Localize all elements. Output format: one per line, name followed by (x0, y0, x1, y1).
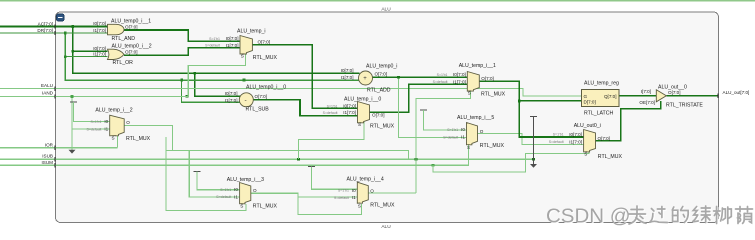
top page divider line (0, 0, 755, 2)
wire MUX ALU_temp_i__1 output to latch D and MUX ALU_out0_i I0 (479, 81, 583, 137)
svg-text:I0[7:0]: I0[7:0] (225, 91, 238, 96)
svg-text:O[7:0]: O[7:0] (375, 72, 388, 77)
svg-text:D[7:0]: D[7:0] (584, 99, 596, 104)
svg-text:IOR: IOR (45, 142, 54, 147)
port tick ALU_out (717, 94, 718, 98)
svg-text:O[7:0]: O[7:0] (372, 112, 385, 117)
svg-text:I1[7:0]: I1[7:0] (569, 139, 582, 144)
constant tie T1 (70, 101, 77, 103)
svg-text:S=default: S=default (334, 196, 349, 200)
junction ISUM branch to ALU_out0_i select (432, 164, 435, 167)
junction ISUB at x298 (297, 158, 300, 161)
svg-text:I[7:0]: I[7:0] (641, 89, 651, 94)
wire net ISUB (long horizontal) (0, 158, 534, 160)
port tick EALU (54, 86, 55, 90)
wire net IAND to MUX ALU_temp_i select and MUX ALU_temp_i__2 I1 (0, 54, 246, 150)
svg-text:S=1'b1: S=1'b1 (220, 188, 231, 192)
mux ALU_temp_i__2 (110, 115, 125, 136)
svg-text:S=1'b1: S=1'b1 (209, 37, 220, 41)
wire MUX ALU_temp_i__0 output to MUX ALU_temp_i__1 I1 (370, 84, 468, 112)
wire net ISUM to MUX ALU_temp_i__5 select (0, 145, 469, 165)
wire constant T2 to MUX ALU_temp_i__3 I0 (197, 172, 240, 190)
svg-text:EALU: EALU (41, 83, 53, 88)
mux ALU_out0_i (584, 130, 596, 152)
port tick DR (54, 31, 55, 35)
svg-text:ISUM: ISUM (42, 160, 54, 165)
svg-text:O: O (370, 188, 374, 193)
svg-text:Q[7:0]: Q[7:0] (604, 94, 617, 99)
svg-text:I0[7:0]: I0[7:0] (93, 21, 106, 26)
junction DR at AND I1 (64, 32, 67, 35)
svg-text:I0[7:0]: I0[7:0] (343, 104, 356, 109)
ground arrow A1 (69, 150, 76, 154)
svg-text:ALU: ALU (381, 224, 391, 230)
svg-text:S=default: S=default (216, 195, 231, 199)
constant tie T3 (308, 165, 315, 167)
svg-text:ALU_out[7:0]: ALU_out[7:0] (723, 90, 750, 95)
svg-text:ALU_temp_i__1: ALU_temp_i__1 (459, 63, 496, 69)
wire net ISUB branch to MUX ALU_temp_i__1 select and MUX ALU_temp_i__4 output (368, 91, 470, 193)
svg-text:S=1'b1: S=1'b1 (437, 73, 448, 77)
svg-text:RTL_MUX: RTL_MUX (481, 91, 506, 97)
mux ALU_temp_i__1 (467, 72, 479, 92)
svg-text:RTL_MUX: RTL_MUX (253, 203, 278, 209)
junction AC at AND I0 (72, 25, 75, 28)
svg-text:AC[7:0]: AC[7:0] (38, 21, 53, 26)
wire ADD output to MUX ALU_temp_i__1 I0 (372, 76, 467, 78)
svg-text:S: S (240, 203, 243, 208)
junction ISUB at x416 (415, 158, 418, 161)
svg-text:I0: I0 (461, 127, 465, 132)
svg-text:ALU_temp_i__5: ALU_temp_i__5 (457, 115, 494, 121)
svg-text:S: S (112, 135, 115, 140)
mux ALU_temp_i__0 (358, 102, 370, 123)
svg-text:ALU_temp_i__2: ALU_temp_i__2 (95, 107, 132, 113)
svg-text:ALU_temp_i__4: ALU_temp_i__4 (347, 176, 384, 182)
svg-text:I1[7:0]: I1[7:0] (453, 79, 466, 84)
svg-text:I1: I1 (234, 194, 238, 199)
port tick IOR (54, 146, 55, 150)
OR gate ALU_temp0_i__2 (108, 49, 125, 59)
port tick AC (54, 24, 55, 28)
mux ALU_temp_i (240, 36, 252, 55)
ADD circle ALU_temp0_i (359, 71, 373, 85)
svg-text:S=default: S=default (323, 111, 338, 115)
wire continuation to ISUB net jog (189, 150, 408, 159)
wire branch ADD out to MUX ALU_temp_i__5 I1 (398, 77, 466, 137)
wire net EALU to latch G (0, 89, 582, 96)
svg-text:RTL_AND: RTL_AND (112, 36, 136, 42)
module ALU boundary box (56, 12, 719, 223)
junction DR at U3 select crossing (243, 79, 246, 82)
junction U6 out at latch D (518, 100, 521, 103)
mux ALU_temp_i__3 (240, 183, 251, 204)
junction AC to SUB I0 (194, 72, 197, 75)
wire latch Q to tristate input (619, 95, 656, 97)
svg-text:S=default: S=default (87, 127, 102, 131)
svg-text:S=default: S=default (549, 140, 564, 144)
svg-text:S=1'b1: S=1'b1 (447, 128, 458, 132)
svg-text:O[7:0]: O[7:0] (125, 49, 138, 54)
wire ISUM branch to MUX ALU_out0_i select (433, 152, 589, 172)
svg-text:O[7:0]: O[7:0] (481, 76, 494, 81)
mux ALU_temp_i__4 (357, 182, 368, 203)
svg-text:DR[7:0]: DR[7:0] (37, 28, 53, 33)
svg-text:I0: I0 (234, 187, 238, 192)
constant tie T4 (420, 109, 427, 111)
junction ISUB at x533 (532, 158, 535, 161)
svg-text:I0: I0 (104, 119, 108, 124)
svg-text:S: S (584, 151, 587, 156)
svg-text:S: S (467, 145, 470, 150)
wire MUX ALU_temp_i__5 output to MUX ALU_out0_i I1 (478, 134, 584, 145)
svg-text:RTL_MUX: RTL_MUX (598, 154, 623, 160)
svg-text:I1[7:0]: I1[7:0] (93, 28, 106, 33)
svg-text:O[7:0]: O[7:0] (125, 24, 138, 29)
svg-text:ALU_temp0_i__0: ALU_temp0_i__0 (246, 85, 286, 91)
svg-text:I1[7:0]: I1[7:0] (341, 75, 354, 80)
svg-text:ALU_temp0_i: ALU_temp0_i (366, 64, 397, 70)
svg-text:RTL_ADD: RTL_ADD (367, 88, 391, 94)
wire AND output to MUX ALU_temp_i I0 (124, 30, 240, 41)
svg-text:RTL_LATCH: RTL_LATCH (584, 111, 613, 117)
svg-text:S: S (241, 54, 244, 59)
svg-text:I0: I0 (352, 188, 356, 193)
AND gate ALU_temp0_i__1 (108, 24, 125, 35)
ground arrow A2 (530, 164, 537, 168)
svg-text:ALU_out0_i: ALU_out0_i (574, 123, 601, 129)
wire net DR (medium green) (0, 33, 360, 102)
svg-text:G: G (584, 94, 588, 99)
wire net AC (dark green) (0, 27, 360, 97)
svg-text:RTL_TRISTATE: RTL_TRISTATE (666, 102, 703, 108)
svg-text:RTL_MUX: RTL_MUX (253, 55, 278, 61)
module collapse icon (57, 14, 65, 21)
constant tie T5 (530, 117, 537, 165)
junction ADD out branch (397, 76, 400, 79)
svg-text:I0[7:0]: I0[7:0] (453, 72, 466, 77)
wire MUX ALU_temp_i__3 output to MUX ALU_temp_i__4 I1 and select (251, 193, 362, 214)
svg-text:RTL_SUB: RTL_SUB (246, 107, 270, 113)
svg-text:O[7:0]: O[7:0] (668, 90, 681, 95)
wire SUB output to MUX ALU_temp_i__0 I1 (253, 100, 357, 116)
svg-text:RTL_MUX: RTL_MUX (370, 202, 395, 208)
tristate buffer ALU_out__0 (656, 90, 666, 102)
svg-text:S: S (358, 122, 361, 127)
wire to MUX ALU_temp_i__3 I1 (166, 150, 240, 197)
svg-text:CSDN @: CSDN @ (546, 204, 631, 227)
svg-text:O: O (126, 120, 130, 125)
svg-text:I0[7:0]: I0[7:0] (93, 46, 106, 51)
svg-text:ALU_temp_i__3: ALU_temp_i__3 (227, 177, 264, 183)
junction on SUB I0 row (186, 95, 189, 98)
wire OR output to MUX ALU_temp_i I1 (124, 48, 240, 55)
SUB circle ALU_temp0_i__0 (239, 93, 253, 107)
svg-text:ALU_temp0_i__1: ALU_temp0_i__1 (111, 18, 151, 24)
svg-text:ISUB: ISUB (42, 153, 53, 158)
port tick ISUB (54, 157, 55, 161)
svg-text:IAND: IAND (42, 91, 54, 96)
constant tie T2 (193, 171, 200, 173)
svg-text:S=1'b1: S=1'b1 (327, 104, 338, 108)
junction DR at OR I1 (64, 55, 67, 58)
svg-text:S=1'b1: S=1'b1 (91, 120, 102, 124)
wire vertical to MUX ALU_temp_i__3 select (166, 137, 246, 210)
svg-text:I0[7:0]: I0[7:0] (226, 36, 239, 41)
wire constant T1 to MUX ALU_temp_i__2 I0 (73, 102, 109, 122)
svg-text:I0[7:0]: I0[7:0] (341, 68, 354, 73)
junction AC at OR I0 (72, 50, 75, 53)
svg-text:O: O (253, 188, 257, 193)
wire tristate output to port ALU_out (666, 95, 718, 97)
svg-text:O[7:0]: O[7:0] (258, 39, 271, 44)
svg-text:OE[7:0]: OE[7:0] (639, 100, 655, 105)
svg-text:ALU_temp_i__0: ALU_temp_i__0 (344, 97, 381, 103)
mux ALU_temp_i__5 (467, 123, 478, 145)
wire net IOR to MUX ALU_temp_i__2 select (0, 135, 118, 148)
svg-text:S=1'b1: S=1'b1 (553, 133, 564, 137)
junction DR to SUB I1 (180, 79, 183, 82)
svg-text:I1: I1 (461, 135, 465, 140)
wire constant T4 to MUX ALU_temp_i__5 I0 (423, 110, 466, 130)
wire constant T3 to MUX ALU_temp_i__4 I0 (311, 166, 357, 189)
junction IAND branch (71, 95, 74, 98)
svg-text:I1[7:0]: I1[7:0] (225, 98, 238, 103)
svg-text:RTL_MUX: RTL_MUX (480, 143, 505, 149)
svg-text:S: S (358, 203, 361, 208)
svg-text:ALU_temp_i: ALU_temp_i (237, 28, 266, 34)
svg-text:S=default: S=default (443, 135, 458, 139)
svg-text:O[7:0]: O[7:0] (255, 94, 268, 99)
svg-text:I1[7:0]: I1[7:0] (93, 52, 106, 57)
svg-text:RTL_MUX: RTL_MUX (370, 124, 395, 130)
svg-text:RTL_MUX: RTL_MUX (126, 136, 151, 142)
svg-text:I1: I1 (352, 195, 356, 200)
svg-text:+: + (363, 76, 367, 82)
port tick IAND (54, 94, 55, 98)
svg-text:I0[7:0]: I0[7:0] (569, 132, 582, 137)
svg-text:S: S (468, 91, 471, 96)
svg-text:RTL_OR: RTL_OR (113, 60, 134, 66)
wire MUX ALU_temp_i output to MUX ALU_temp_i__0 I0 (252, 45, 357, 109)
wire ISUB branch to MUX ALU_temp_i__0 select (299, 122, 365, 160)
svg-text:O[7:0]: O[7:0] (598, 136, 611, 141)
wire MUX ALU_out0_i output to tristate OE (596, 101, 661, 141)
svg-text:ALU_temp_reg: ALU_temp_reg (584, 81, 619, 87)
svg-text:O: O (480, 129, 484, 134)
latch ALU_temp_reg (582, 90, 620, 107)
svg-text:ALU: ALU (381, 6, 391, 12)
svg-text:I1: I1 (104, 127, 108, 132)
wire net MUX ALU_temp_i__2 output to MUX ALU_temp_i__3 I1 (124, 125, 172, 150)
svg-text:I1[7:0]: I1[7:0] (226, 43, 239, 48)
svg-text:S=default: S=default (205, 44, 220, 48)
svg-text:I1[7:0]: I1[7:0] (343, 110, 356, 115)
port tick ISUM (54, 163, 55, 167)
svg-text:S=default: S=default (433, 80, 448, 84)
svg-text:-: - (245, 97, 247, 104)
svg-text:S=1'b1: S=1'b1 (338, 189, 349, 193)
